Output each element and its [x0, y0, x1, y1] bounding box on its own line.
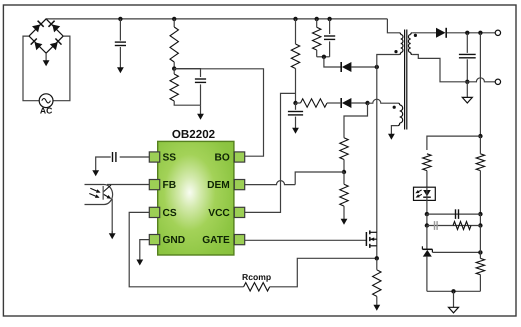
svg-text:GATE: GATE [202, 235, 230, 246]
node fb bottom [451, 289, 455, 293]
wire C4 bottom [329, 41, 331, 56]
shunt regulator U3 TL431 [422, 248, 432, 250]
wire node to R2 [173, 69, 175, 74]
wire LED to row1 [426, 187, 428, 214]
wire SS pin [120, 156, 150, 158]
bridge diode D4 (upper-right) [52, 25, 60, 33]
light arrow 1 [90, 188, 99, 192]
wire D5 to drain [351, 66, 376, 68]
wire R1 top [173, 19, 175, 27]
wire D6 to aux node [351, 102, 367, 104]
wire VCC node to C3 [295, 103, 297, 110]
wire primary bottom [377, 55, 399, 259]
pin GND pad [149, 235, 159, 245]
bridge diode D1 (lower-left) [35, 42, 43, 50]
bridge rectifier BR1 frame [29, 19, 63, 53]
node rail-R1 [172, 17, 176, 21]
AC source V1 [39, 94, 53, 108]
wire Rcomp to source node [270, 258, 377, 287]
node row2 left [425, 223, 429, 227]
resistor R5 (clamp) [313, 27, 321, 50]
wire fb node to R10 [479, 136, 481, 154]
svg-text:GND: GND [163, 235, 186, 246]
wire GATE pin [245, 239, 367, 241]
capacitor C4 (clamp) [324, 35, 335, 37]
wire node to C2 [174, 69, 200, 77]
wire clamp join [317, 56, 330, 58]
node row2 right [478, 223, 482, 227]
wire output node to C6 [466, 33, 468, 53]
wire rail to R5 [316, 19, 318, 27]
ground arrow below C1 [119, 47, 121, 68]
wire R4 to D6 [327, 102, 341, 104]
secondary dot [414, 34, 417, 37]
svg-text:SS: SS [163, 153, 177, 164]
ground arrow SS [95, 159, 97, 171]
wire C6 to return [466, 59, 468, 82]
optocoupler U2 LED [423, 190, 431, 196]
wire D7 to output [447, 32, 496, 34]
primary winding T1 [399, 33, 401, 35]
resistor R11 (row2) [453, 222, 471, 230]
wire CS pin [129, 212, 243, 286]
wire node to R7 [343, 172, 345, 184]
wire R6 top [343, 131, 345, 138]
pin GATE pad [234, 235, 244, 245]
wire bridge left vertex to AC [23, 36, 39, 101]
resistor R1 (BO upper) [170, 27, 178, 62]
wire rail corner to primary [387, 19, 399, 33]
wire DEM pin [245, 181, 296, 185]
ground arrow FB emitter [111, 231, 113, 234]
resistor Rcomp [244, 283, 270, 291]
wire R5 bottom [316, 50, 318, 57]
svg-text:OB2202: OB2202 [172, 128, 215, 141]
wire R3 to VCC node [295, 69, 297, 104]
transistor Q1 gate bar [365, 232, 367, 246]
wire row2 [427, 225, 481, 227]
node row1 right [478, 212, 482, 216]
svg-text:VCC: VCC [208, 208, 230, 219]
capacitor C3 (VCC) [288, 111, 303, 113]
wire rail to R3 [295, 19, 297, 44]
ground arrow DEM divider [343, 206, 345, 220]
resistor R10 (fb upper) [476, 154, 484, 171]
svg-text:AC: AC [40, 106, 52, 116]
ground arrow below C3 [295, 117, 297, 129]
svg-text:DEM: DEM [207, 180, 230, 191]
svg-text:FB: FB [163, 180, 177, 191]
wire BO node to BO pin [174, 69, 263, 156]
wire emitter down [111, 199, 113, 233]
node clamp [322, 55, 326, 59]
diode D5 (clamp) [342, 62, 352, 72]
node rail-Rstartup [293, 17, 297, 21]
node ref [478, 250, 482, 254]
terminal +V [495, 30, 500, 35]
svg-text:Rcomp: Rcomp [242, 272, 271, 282]
node rail-C1 [118, 17, 122, 21]
wire secondary top to D7 [412, 32, 436, 34]
bridge diode D3 (lower-right) [50, 42, 58, 50]
wire row1 [427, 213, 481, 215]
resistor R2 (BO lower) [170, 74, 178, 101]
resistor R4 (VCC series) [301, 99, 328, 107]
phototransistor base bar [102, 186, 104, 200]
ground triangle fb [453, 291, 455, 307]
wire bridge right vertex to AC [53, 36, 70, 101]
secondary winding T1 [411, 33, 413, 35]
wire source to R8 [376, 258, 378, 270]
wire row1-row2 right [479, 214, 481, 225]
ground triangle output [466, 82, 468, 98]
diode D6 (VCC rectifier) [342, 98, 352, 108]
svg-text:BO: BO [215, 153, 230, 164]
wire ref to R12 [479, 226, 481, 259]
transistor Q1 source lead [370, 245, 377, 247]
optocoupler U2 LED box [414, 187, 436, 200]
wire aux top hop over drain [368, 99, 399, 103]
ground arrow aux [390, 127, 392, 135]
pin FB pad [149, 180, 159, 190]
LED light arrow 2 [417, 194, 422, 197]
node rail-Cclamp [327, 17, 331, 21]
node source [375, 256, 379, 260]
wire fb top cross [427, 136, 481, 150]
node output cap top [465, 31, 469, 35]
ground arrow sense [376, 296, 378, 305]
ground arrow BO divider [200, 105, 202, 115]
capacitor C6 (output) [459, 53, 476, 55]
aux winding T1 [398, 103, 400, 105]
pin DEM pad [234, 180, 244, 190]
ground arrow at bridge minus [45, 53, 47, 61]
resistor R7 (DEM lower) [340, 184, 348, 206]
wire rail to C4 [329, 19, 331, 34]
wire R10 to rows [479, 171, 481, 215]
capacitor C5 (SS) [112, 152, 114, 162]
wire row1-row2 left [426, 214, 428, 225]
node rail-Rclamp [315, 17, 319, 21]
resistor R12 (fb lower) [476, 258, 484, 274]
wire FB pin [107, 184, 149, 186]
node row1 left [425, 212, 429, 216]
transistor Q1 channel [369, 230, 371, 234]
wire R12 to bottom [479, 275, 481, 292]
resistor R8 (sense) [373, 270, 381, 297]
wire R6 to node [343, 160, 345, 173]
node output fb top [478, 31, 482, 35]
light arrow 2 [89, 194, 98, 198]
node drain-clamp [375, 65, 379, 69]
wire fb sense down [479, 33, 481, 136]
wire R9 bottom [426, 171, 428, 188]
wire aux node to DEM divider [344, 103, 368, 131]
transistor Q1 drain lead [370, 231, 377, 233]
resistor R3 (startup) [291, 44, 299, 69]
capacitor C1 [115, 41, 126, 43]
wire VCC tee jog [245, 93, 296, 212]
wire TL431 ref [432, 251, 480, 253]
node output return [465, 80, 469, 84]
terminal RTN [495, 79, 500, 84]
wire C2 bottom [200, 84, 202, 105]
capacitor C8 (row2) [434, 221, 436, 230]
bridge diode D2 (upper-left) [32, 25, 40, 33]
node DEM [342, 170, 346, 174]
wire GND pin [140, 240, 150, 241]
wire R1 bottom to node [173, 62, 175, 69]
wire R2 bottom [174, 101, 200, 105]
svg-text:CS: CS [163, 208, 177, 219]
optocoupler U2 phototransistor envelope [85, 185, 113, 205]
LED light arrow 1 [417, 190, 422, 193]
capacitor C7 (row1) [455, 209, 457, 219]
wire rail to C1 [119, 19, 121, 41]
wire fb bottom [427, 290, 481, 292]
wire C5 to corner [96, 157, 111, 159]
pin BO pad [234, 152, 244, 162]
wire aux bottom [391, 126, 398, 127]
phototransistor emitter [104, 194, 111, 198]
primary dot [394, 50, 397, 53]
capacitor C2 (BO filter) [195, 78, 206, 80]
wire clamp to D5 [324, 57, 341, 67]
transistor Q1 body arrow [371, 238, 377, 240]
node fb top [478, 134, 482, 138]
wire VCC node to R4 [296, 102, 301, 104]
pin SS pad [149, 152, 159, 162]
node aux winding [365, 101, 369, 105]
phototransistor collector [104, 185, 111, 192]
diode D7 (output rectifier) [436, 28, 446, 38]
wire row2 to TL431 [426, 226, 428, 250]
resistor R9 (LED bias) [423, 154, 431, 171]
ground arrow GND pin [139, 241, 141, 261]
transformer core [404, 30, 406, 130]
wire TL431 anode down [426, 257, 428, 292]
node BO divider [172, 66, 176, 70]
aux dot [393, 106, 396, 109]
wire secondary bottom [412, 55, 467, 82]
wire return hop to terminal [467, 78, 495, 82]
node VCC supply [293, 101, 297, 105]
pin VCC pad [234, 207, 244, 217]
wire HV rail [46, 18, 387, 20]
pin CS pad [149, 207, 159, 217]
resistor R6 (DEM upper) [340, 138, 348, 160]
